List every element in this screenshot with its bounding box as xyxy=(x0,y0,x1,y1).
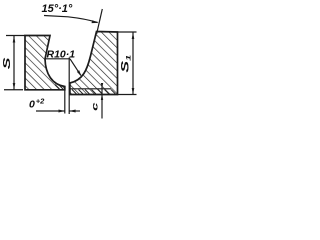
svg-text:+2: +2 xyxy=(36,97,45,106)
S dimension arrow up xyxy=(13,36,16,43)
S dimension: top extension line xyxy=(6,35,25,37)
extra hatch strokes in left root wedge xyxy=(55,85,116,95)
svg-text:c: c xyxy=(90,102,100,111)
S1 dimension line xyxy=(132,33,134,95)
root gap dimension line, right segment with arrow xyxy=(69,110,80,112)
S1 dimension: top extension line xyxy=(118,31,137,33)
svg-text:0: 0 xyxy=(29,99,35,111)
slanted extension line of bevel xyxy=(97,9,103,34)
S1 arrow down xyxy=(132,88,135,95)
svg-text:15°·1°: 15°·1° xyxy=(42,3,73,15)
root gap dimension line 0+2, left segment with arrow xyxy=(36,110,65,112)
axis / right root line xyxy=(68,58,70,115)
c arrow up (below bottom edge) xyxy=(101,94,103,100)
svg-text:S: S xyxy=(2,57,13,69)
S1 arrow up xyxy=(132,33,135,40)
left plate (thickness S), hatched xyxy=(25,36,65,90)
R10 leader with arrow xyxy=(70,59,81,76)
left root extension line xyxy=(64,90,66,114)
S dimension: bottom extension line xyxy=(4,89,23,91)
c dimension line xyxy=(101,84,103,119)
c extension line (root face level) xyxy=(70,88,111,90)
extra hatch strokes in right root wedge xyxy=(72,90,77,95)
S dimension line xyxy=(13,36,15,90)
angle leader line with arrow xyxy=(44,16,98,23)
R10 leader shelf xyxy=(46,58,71,60)
S1 dimension: bottom extension line xyxy=(118,94,137,96)
right plate (thickness S1), hatched xyxy=(70,32,118,95)
c arrow down (above upper reference) xyxy=(101,83,103,89)
S dimension arrow down xyxy=(13,83,16,90)
